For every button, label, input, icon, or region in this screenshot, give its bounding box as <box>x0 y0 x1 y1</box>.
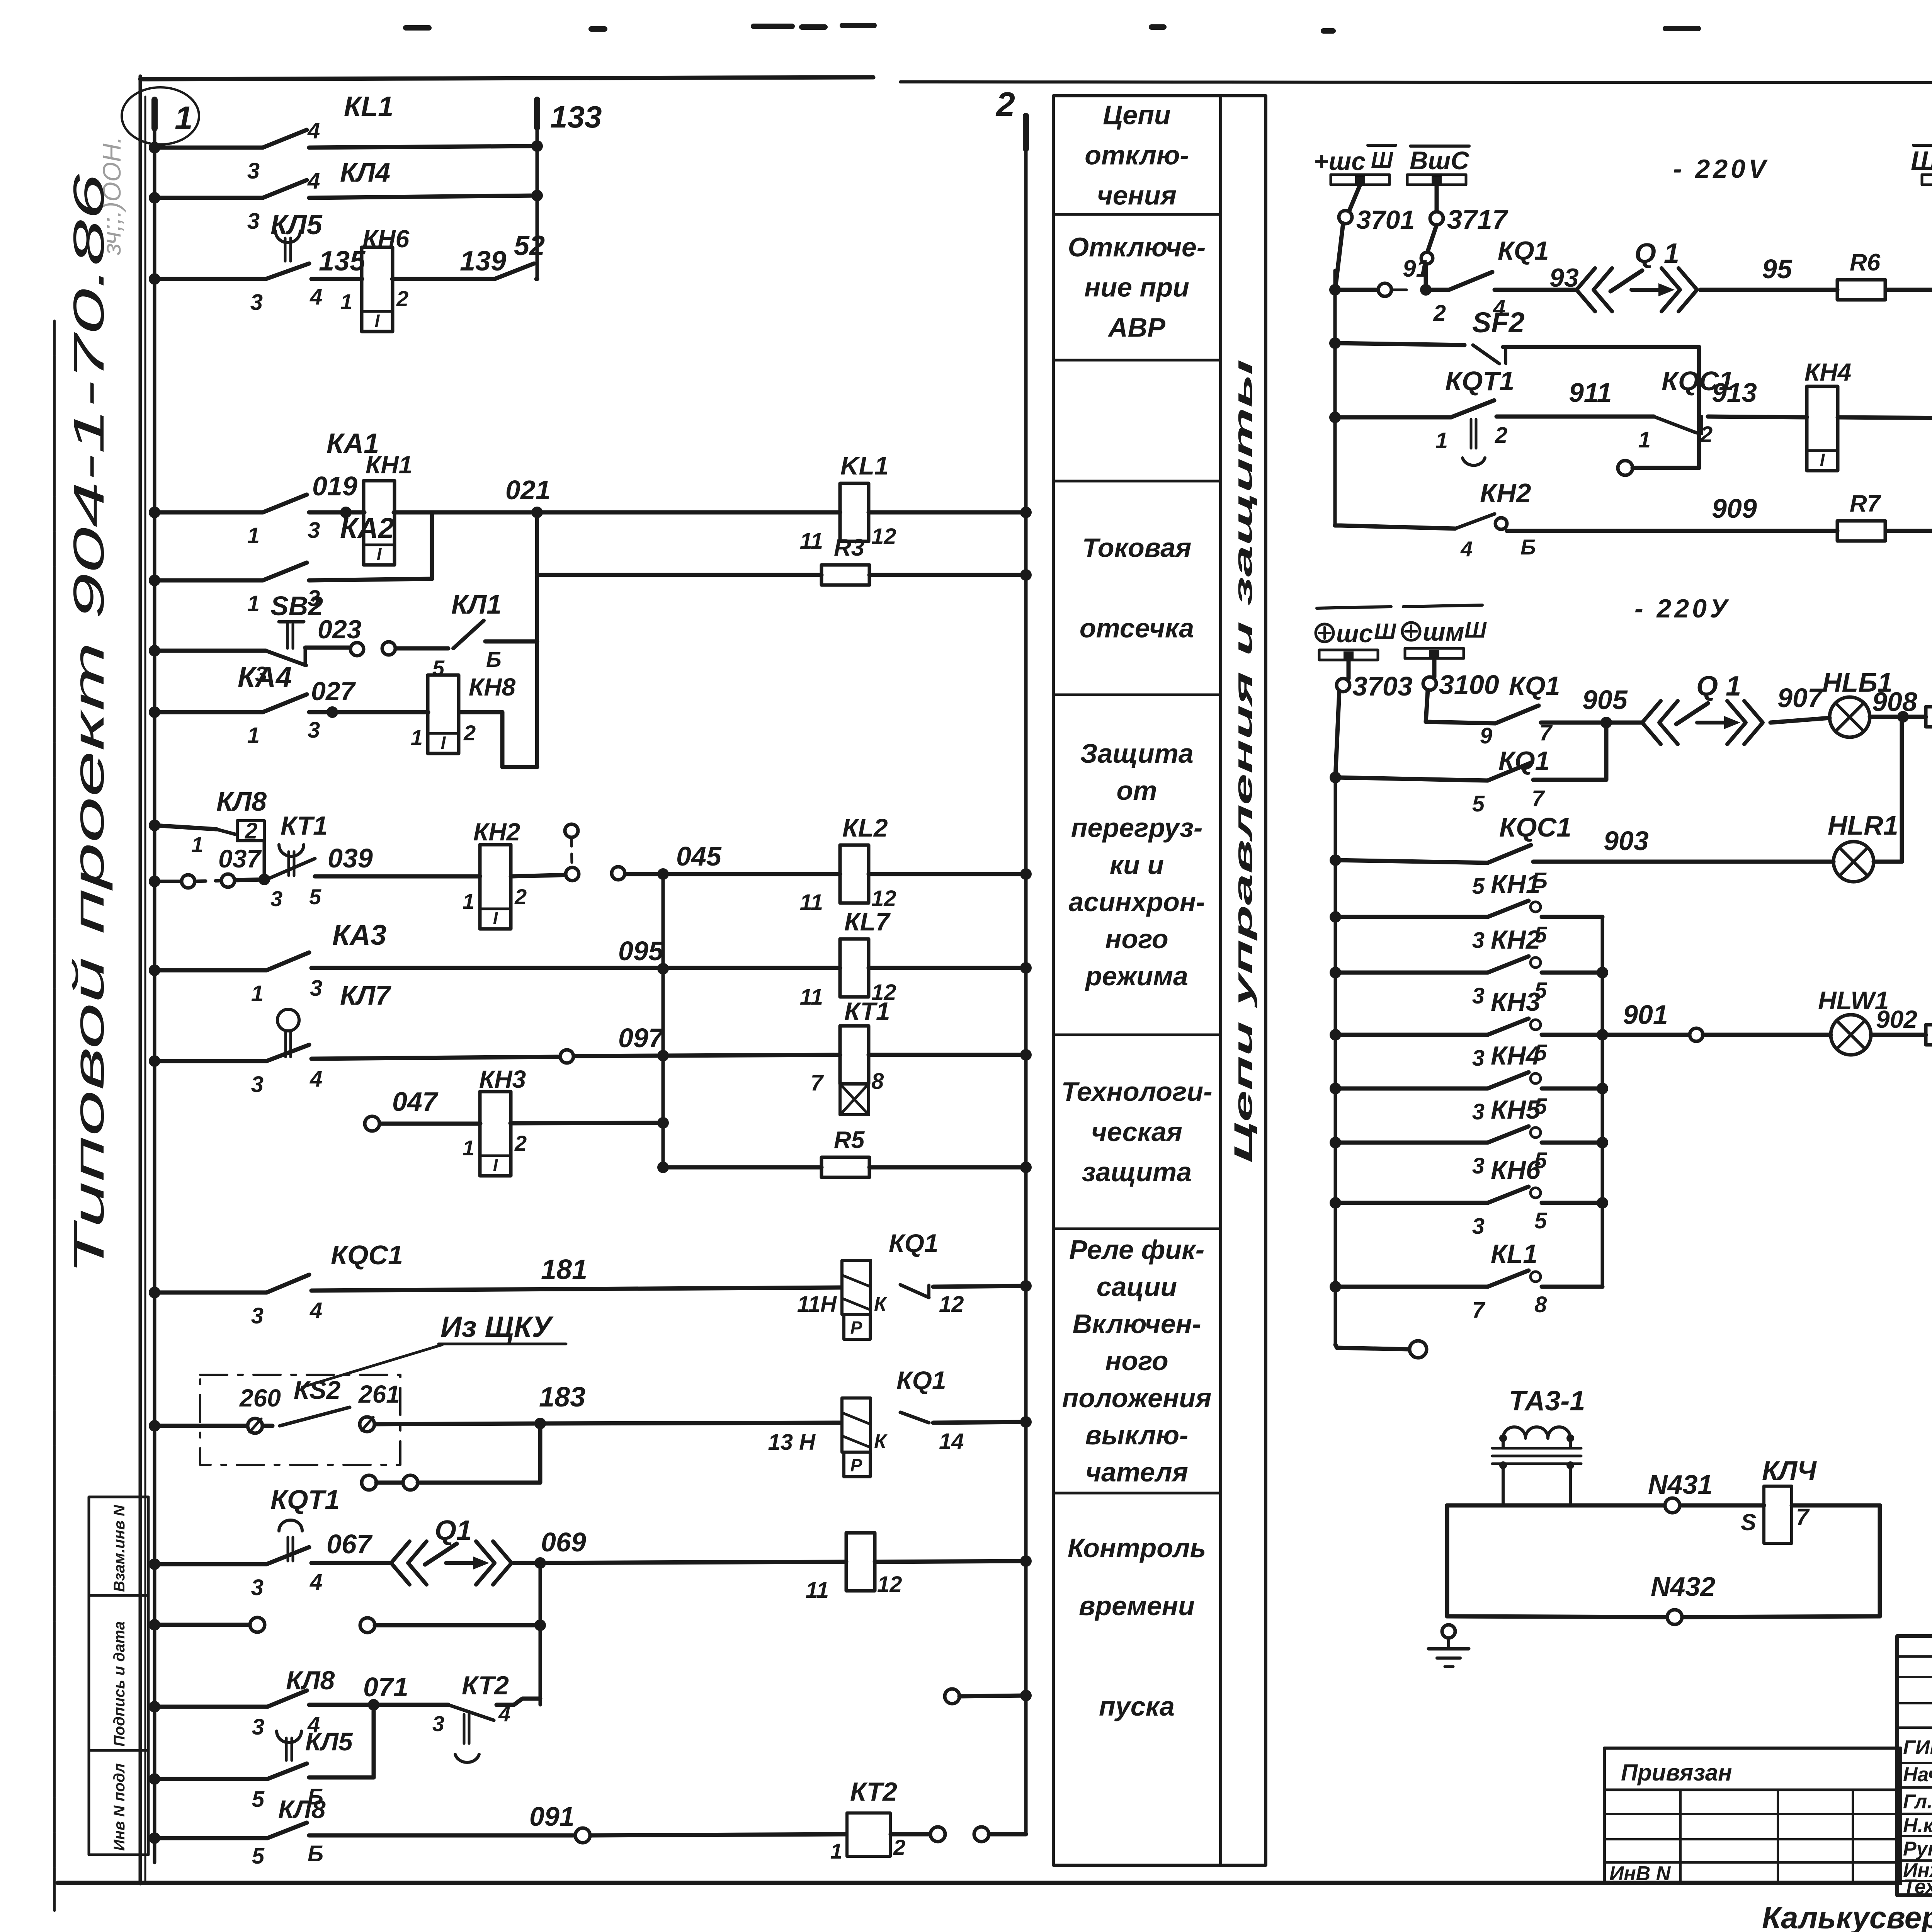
drop contact above 045 <box>565 824 625 881</box>
svg-text:зч;;.)ООН.: зч;;.)ООН. <box>97 136 126 255</box>
svg-text:2: 2 <box>995 85 1015 123</box>
svg-text:КL2: КL2 <box>842 813 888 842</box>
svg-text:3701: 3701 <box>1356 205 1415 235</box>
svg-text:КТ1: КТ1 <box>281 811 328 840</box>
svg-text:1: 1 <box>1435 428 1448 453</box>
wire rung 091-KT2 <box>149 1832 930 1844</box>
node 021 <box>505 475 551 518</box>
svg-text:3: 3 <box>250 290 263 315</box>
svg-text:5: 5 <box>252 1787 265 1812</box>
svg-text:асинхрон-: асинхрон- <box>1069 887 1205 917</box>
node 045 <box>657 841 722 880</box>
svg-text:095: 095 <box>618 936 664 966</box>
node 091 <box>529 1801 590 1843</box>
svg-text:ТА3-1: ТА3-1 <box>1509 1386 1585 1417</box>
wire rung KL1 <box>149 140 543 153</box>
svg-text:ШЗА: ШЗА <box>1911 146 1932 176</box>
relay KT2 coil <box>830 1777 905 1863</box>
bus +шсШ <box>1314 145 1396 185</box>
contact KL5 (5-6) with actuator <box>252 1727 353 1812</box>
relay KQ1 (11H-K-12) <box>797 1229 964 1339</box>
wire riser 069 down <box>539 1563 542 1705</box>
svg-text:Включен-: Включен- <box>1073 1309 1201 1339</box>
svg-text:Рук.гр: Рук.гр <box>1903 1838 1932 1860</box>
svg-text:091: 091 <box>529 1801 575 1832</box>
svg-text:КL1: КL1 <box>344 91 393 122</box>
wire rung 071 <box>149 1699 540 1713</box>
svg-text:52: 52 <box>514 230 545 261</box>
contact KL7 (3-4) with actuator <box>251 980 391 1097</box>
wire rung 067-Q1-069 <box>149 1555 1032 1570</box>
wire rung KA1-KH1-KL1 <box>149 507 1032 518</box>
svg-text:КL7: КL7 <box>844 907 891 936</box>
svg-text:069: 069 <box>541 1527 586 1557</box>
connector circles to bus2 <box>930 1827 1026 1842</box>
svg-text:1: 1 <box>247 523 260 548</box>
svg-text:Реле фик-: Реле фик- <box>1069 1235 1204 1265</box>
svg-text:шм: шм <box>1423 617 1464 646</box>
svg-text:КQС1: КQС1 <box>1499 812 1571 842</box>
middle table row texts <box>1061 100 1213 1722</box>
svg-text:4: 4 <box>310 1298 322 1323</box>
svg-text:8: 8 <box>1534 1292 1547 1317</box>
contact KA1 (1-3) <box>247 428 379 548</box>
contact KH2 (4-6) <box>1455 478 1536 561</box>
wire rung KQ1(5-7) <box>1330 723 1606 783</box>
svg-text:КН6: КН6 <box>362 225 410 253</box>
resistor R5 <box>821 1157 869 1177</box>
svg-text:от: от <box>1117 776 1157 806</box>
svg-text:КЛ8: КЛ8 <box>216 786 267 816</box>
svg-text:905: 905 <box>1582 685 1628 715</box>
terminal circle branch <box>1618 461 1699 475</box>
contact KL4 (3-4) <box>247 157 390 234</box>
contact KQC1 (1-2) <box>1638 366 1734 452</box>
svg-text:7: 7 <box>811 1070 824 1095</box>
svg-text:Технологи-: Технологи- <box>1061 1077 1213 1107</box>
svg-text:045: 045 <box>676 841 722 871</box>
svg-text:902: 902 <box>1876 1005 1917 1033</box>
svg-text:2: 2 <box>893 1835 905 1859</box>
wire rung KH6 <box>149 273 537 285</box>
contact KQC1 (3-4) <box>251 1240 403 1328</box>
contact КL1 row <box>1330 1239 1602 1323</box>
svg-text:Отключе-: Отключе- <box>1068 232 1206 262</box>
svg-text:КL1: КL1 <box>1491 1239 1537 1269</box>
svg-text:913: 913 <box>1712 378 1757 408</box>
svg-text:Б: Б <box>1520 535 1536 559</box>
svg-text:4: 4 <box>310 1570 322 1595</box>
svg-text:1: 1 <box>463 889 474 913</box>
contact KL8 (1-2) to box 2 <box>149 786 270 885</box>
svg-text:3: 3 <box>1472 983 1485 1009</box>
svg-text:Р: Р <box>850 1318 862 1338</box>
wire rung SB2 <box>149 641 537 656</box>
svg-text:К: К <box>874 1293 888 1315</box>
svg-text:2: 2 <box>1700 422 1713 447</box>
breaker contact Q1 <box>1577 238 1697 311</box>
svg-text:2: 2 <box>514 884 527 909</box>
svg-text:911: 911 <box>1569 378 1612 408</box>
svg-text:КН4: КН4 <box>1491 1041 1541 1070</box>
connector circle 097 <box>560 1023 665 1063</box>
wire rung KL5 5-6 <box>149 1705 374 1785</box>
transformer TA3-1 <box>1492 1386 1585 1505</box>
svg-text:КQ1: КQ1 <box>1509 671 1560 701</box>
bus ⊕шсШ <box>1316 607 1396 660</box>
svg-text:5: 5 <box>1534 1208 1547 1233</box>
svg-text:3: 3 <box>432 1711 444 1736</box>
contact KT1 (3-5) with actuator <box>267 811 328 911</box>
bus ВшС <box>1407 146 1469 185</box>
svg-text:7: 7 <box>1532 786 1545 811</box>
svg-text:КЛ8: КЛ8 <box>286 1666 335 1695</box>
bus ⊕шмШ <box>1402 605 1487 658</box>
svg-text:3: 3 <box>308 718 320 743</box>
contact KQC1 (5-6) <box>1472 812 1571 899</box>
contact KA3 (1-3) <box>251 919 386 1006</box>
contact 52 <box>495 230 545 279</box>
svg-text:Q 1: Q 1 <box>1696 671 1741 702</box>
svg-text:SB2: SB2 <box>270 591 323 621</box>
lamp HLW1 <box>1818 986 1917 1055</box>
svg-text:КТ1: КТ1 <box>844 997 890 1026</box>
svg-text:I: I <box>377 544 382 564</box>
svg-text:КQ1: КQ1 <box>889 1229 939 1257</box>
svg-text:4: 4 <box>310 284 322 310</box>
svg-text:КЛ7: КЛ7 <box>340 980 391 1010</box>
svg-text:режима: режима <box>1085 961 1188 991</box>
svg-text:019: 019 <box>312 471 357 501</box>
svg-text:12: 12 <box>939 1292 964 1317</box>
svg-text:047: 047 <box>392 1087 439 1117</box>
svg-text:908: 908 <box>1872 687 1917 717</box>
svg-text:Типовой проект 904-1-70.8: Типовой проект 904-1-70.86 <box>65 173 113 1275</box>
svg-text:907: 907 <box>1777 683 1824 713</box>
svg-text:защита: защита <box>1082 1157 1192 1187</box>
svg-text:1: 1 <box>1638 427 1651 452</box>
contact KL7 (11-12) <box>800 907 896 1010</box>
svg-text:S: S <box>1741 1509 1756 1535</box>
svg-text:Калькусверил Горстка: Калькусверил Горстка <box>1762 1900 1932 1932</box>
svg-text:R6: R6 <box>1850 249 1881 276</box>
svg-text:5: 5 <box>1472 791 1485 816</box>
wire rung KS2-183 <box>149 1416 1032 1432</box>
wire: 133 bus vertical <box>536 128 539 279</box>
svg-text:901: 901 <box>1623 1000 1668 1030</box>
svg-text:2: 2 <box>1495 423 1507 448</box>
contact KL8 (3-4) <box>252 1666 335 1740</box>
contact KT2 (3-4) with actuator <box>432 1671 510 1762</box>
svg-text:5: 5 <box>309 884 321 909</box>
svg-text:071: 071 <box>363 1672 408 1702</box>
lamp HLG1 <box>1822 667 1893 737</box>
node 3701 <box>1335 185 1415 526</box>
wire rung KA4-KH8 <box>149 706 537 767</box>
wire rung KQC1-181 <box>149 1280 1032 1298</box>
svg-text:КН1: КН1 <box>1491 869 1541 899</box>
node 027 <box>311 677 356 718</box>
svg-text:3100: 3100 <box>1439 670 1499 700</box>
svg-text:КН8: КН8 <box>469 673 516 701</box>
svg-text:Взам.инв N: Взам.инв N <box>111 1505 128 1592</box>
svg-text:11: 11 <box>806 1578 829 1603</box>
svg-text:5: 5 <box>252 1844 265 1869</box>
wire riser 021 down <box>535 512 539 767</box>
svg-text:КQ1: КQ1 <box>1498 236 1549 265</box>
dash-dot box KS2 <box>200 1375 400 1465</box>
svg-text:11: 11 <box>800 529 823 554</box>
signature table texts <box>1903 1736 1932 1898</box>
wire TA3-1 loop <box>1447 1505 1880 1617</box>
wire rung 901-HLW1-902-R9 <box>1602 1028 1932 1041</box>
svg-text:3: 3 <box>1472 1214 1485 1239</box>
svg-text:положения: положения <box>1062 1383 1212 1413</box>
svg-text:I: I <box>493 908 498 928</box>
contact KL8 (11-12) <box>806 1533 902 1603</box>
svg-text:Цепи: Цепи <box>1103 100 1170 130</box>
svg-text:95: 95 <box>1762 254 1793 284</box>
svg-text:7: 7 <box>1472 1298 1486 1323</box>
svg-text:КЛ5: КЛ5 <box>270 209 323 240</box>
svg-text:11Н: 11Н <box>797 1292 837 1317</box>
svg-text:91: 91 <box>1403 255 1429 282</box>
svg-text:ние при: ние при <box>1084 272 1189 303</box>
svg-text:отсечка: отсечка <box>1080 613 1194 643</box>
svg-text:183: 183 <box>539 1382 585 1413</box>
contact KL8 (5-6) <box>252 1795 326 1869</box>
node 019 <box>312 471 357 518</box>
contact KS2 with terminals 260/261 <box>239 1376 400 1433</box>
svg-text:909: 909 <box>1712 493 1757 524</box>
svg-text:11: 11 <box>800 890 823 915</box>
svg-text:КQТ1: КQТ1 <box>1445 366 1514 396</box>
svg-text:ного: ного <box>1105 1346 1168 1376</box>
contact КН3 row <box>1330 987 1602 1071</box>
svg-text:Подпись и дата: Подпись и дата <box>111 1621 128 1747</box>
svg-text:КН5: КН5 <box>1491 1095 1541 1124</box>
terminal stub on bus2 <box>945 1689 1032 1704</box>
svg-text:КН3: КН3 <box>1491 987 1541 1017</box>
wire lamp collector vertical <box>1597 917 1608 1287</box>
svg-text:Гл.спец: Гл.спец <box>1903 1791 1932 1813</box>
relay KH2 <box>480 845 511 929</box>
contact KQ1 (5-7) <box>1472 746 1550 816</box>
svg-text:Привязан: Привязан <box>1621 1760 1732 1786</box>
svg-text:1: 1 <box>340 289 352 314</box>
svg-text:14: 14 <box>939 1429 964 1454</box>
svg-text:Цепи управления и: Цепи управления и защиты <box>1229 359 1257 1163</box>
svg-text:2: 2 <box>514 1131 527 1155</box>
svg-text:N431: N431 <box>1648 1469 1713 1500</box>
resistor R8 <box>1926 707 1932 727</box>
svg-text:КЛ4: КЛ4 <box>340 157 390 187</box>
svg-text:3: 3 <box>247 158 260 184</box>
wire rung KH2-909-R7 <box>1335 526 1932 531</box>
bus ШЗАШ <box>1911 145 1932 185</box>
svg-text:Ш: Ш <box>1464 617 1487 643</box>
relay KQ1 (13H-K-14) <box>768 1366 964 1477</box>
contact KT1 (7-8) <box>811 997 890 1115</box>
relay KH3 <box>480 1092 511 1176</box>
contact KA4 (1-3) <box>238 661 320 748</box>
contact KL5 (3-4) with actuator <box>250 209 323 315</box>
middle table frame <box>1053 96 1266 1865</box>
svg-text:времени: времени <box>1079 1591 1195 1621</box>
svg-text:Контроль: Контроль <box>1068 1533 1206 1563</box>
svg-text:R7: R7 <box>1850 490 1881 517</box>
contact KQT1 (1-2) with actuator <box>1435 366 1514 465</box>
svg-text:ческая: ческая <box>1091 1117 1182 1147</box>
wire rung KQC1(5-6)-903-HLR1 <box>1330 717 1902 866</box>
svg-text:4: 4 <box>310 1066 322 1092</box>
wire rung KQT1-911-KQC1-913-KH4 <box>1329 412 1932 423</box>
svg-text:1: 1 <box>247 591 260 616</box>
svg-text:КА4: КА4 <box>238 661 292 693</box>
svg-text:Нач сек: Нач сек <box>1903 1764 1932 1786</box>
contact KL1 (11-12) <box>800 451 896 554</box>
connector circles 037 <box>182 844 262 888</box>
svg-text:R5: R5 <box>834 1127 865 1153</box>
svg-text:КТ2: КТ2 <box>850 1777 897 1806</box>
svg-text:I: I <box>441 733 446 753</box>
svg-text:+шс: +шс <box>1314 147 1366 175</box>
svg-text:133: 133 <box>550 100 602 134</box>
wire rung 037-039-KH2-045 <box>149 868 1032 887</box>
svg-text:- 220V: - 220V <box>1673 154 1769 184</box>
contact КН4 row <box>1330 1041 1602 1124</box>
svg-text:097: 097 <box>618 1023 665 1053</box>
button SB2 <box>255 591 323 686</box>
relay KL4 coil <box>1741 1456 1817 1543</box>
svg-text:903: 903 <box>1604 826 1649 856</box>
svg-text:ВшС: ВшС <box>1410 146 1469 175</box>
svg-text:выклю-: выклю- <box>1085 1420 1189 1450</box>
wire R3 branch <box>537 569 1032 581</box>
svg-text:2: 2 <box>396 286 408 311</box>
svg-text:ки и: ки и <box>1110 850 1164 880</box>
wire rung 047-KH3 <box>379 1117 669 1129</box>
node N432 <box>1651 1571 1715 1624</box>
contact SF2 and wire <box>1329 306 1699 468</box>
svg-text:КН2: КН2 <box>1491 925 1541 954</box>
svg-text:11: 11 <box>800 985 823 1010</box>
svg-text:КН2: КН2 <box>473 818 520 846</box>
svg-text:КТ2: КТ2 <box>462 1671 509 1700</box>
resistor R3 <box>821 565 869 585</box>
svg-text:Б: Б <box>308 1841 323 1866</box>
svg-text:9: 9 <box>1480 723 1492 748</box>
svg-text:3703: 3703 <box>1352 671 1413 701</box>
node 071 <box>363 1672 408 1711</box>
svg-text:181: 181 <box>541 1254 587 1285</box>
svg-text:12: 12 <box>877 1572 902 1597</box>
wire rung KA2 <box>149 512 432 586</box>
breaker contact Q1 <box>1642 671 1763 744</box>
svg-text:037: 037 <box>218 844 262 873</box>
svg-text:2: 2 <box>1433 301 1446 326</box>
lamp HLR1 <box>1828 810 1898 882</box>
svg-text:КН6: КН6 <box>1491 1155 1541 1185</box>
contact KA2 (1-3) <box>247 512 394 616</box>
svg-text:КQС1: КQС1 <box>331 1240 403 1270</box>
contact KQ1 (9-7) <box>1480 671 1560 748</box>
svg-text:4: 4 <box>307 118 320 143</box>
svg-text:023: 023 <box>318 615 362 644</box>
connector circles 023 <box>350 642 395 656</box>
svg-text:8: 8 <box>871 1069 884 1094</box>
wire: bus 2 vertical <box>1024 149 1028 1834</box>
contact KL1 (5-6) <box>432 589 502 680</box>
svg-text:КН4: КН4 <box>1804 358 1851 386</box>
svg-text:КН1: КН1 <box>366 451 412 479</box>
svg-text:Из ЩКУ: Из ЩКУ <box>440 1311 554 1344</box>
svg-text:5: 5 <box>1472 874 1485 899</box>
contact KQ1 (2-4) <box>1433 236 1549 326</box>
svg-text:1: 1 <box>251 981 264 1006</box>
svg-text:4: 4 <box>1460 537 1473 561</box>
svg-text:КQ1: КQ1 <box>1498 746 1550 776</box>
relay KH6 <box>362 247 393 332</box>
svg-text:КЛ1: КЛ1 <box>451 589 502 619</box>
contact KL2 (11-12) <box>800 813 896 915</box>
svg-text:3: 3 <box>270 886 282 911</box>
svg-text:3: 3 <box>310 976 322 1001</box>
resistor R7 <box>1837 521 1885 541</box>
breaker contact Q1 <box>391 1515 512 1585</box>
svg-text:027: 027 <box>311 677 356 706</box>
svg-text:KL1: KL1 <box>840 451 889 480</box>
node 1 (left supply bus) <box>122 87 199 145</box>
svg-text:261: 261 <box>358 1380 400 1408</box>
svg-text:ИнВ N: ИнВ N <box>1609 1862 1671 1885</box>
svg-text:перегруз-: перегруз- <box>1071 813 1203 843</box>
svg-text:К: К <box>874 1430 888 1453</box>
svg-text:Р: Р <box>850 1455 862 1475</box>
left margin faint stamp text <box>97 136 126 255</box>
svg-text:SF2: SF2 <box>1472 306 1525 338</box>
relay KH8 <box>428 675 459 753</box>
resistor R9 <box>1926 1025 1932 1045</box>
svg-text:чения: чения <box>1097 180 1177 211</box>
wire riser 045-R5 <box>662 874 665 1167</box>
svg-text:3: 3 <box>1472 1153 1485 1179</box>
contact КН2 row <box>1330 925 1602 1009</box>
svg-text:Н.контр: Н.контр <box>1903 1815 1932 1837</box>
contact КН6 row <box>1330 1155 1602 1239</box>
svg-text:1: 1 <box>463 1136 474 1160</box>
svg-text:139: 139 <box>460 246 506 277</box>
svg-text:135: 135 <box>319 246 366 277</box>
svg-text:3: 3 <box>1472 1099 1485 1124</box>
svg-text:Ш: Ш <box>1374 619 1396 644</box>
svg-text:3: 3 <box>251 1575 264 1600</box>
contact КН5 row <box>1330 1095 1602 1179</box>
svg-text:3: 3 <box>251 1303 264 1328</box>
svg-text:3: 3 <box>1472 928 1485 953</box>
svg-text:КН3: КН3 <box>479 1065 526 1093</box>
svg-text:4: 4 <box>498 1702 510 1726</box>
svg-text:1: 1 <box>247 723 260 748</box>
svg-text:1: 1 <box>411 725 423 750</box>
svg-text:КQТ1: КQТ1 <box>270 1485 340 1515</box>
svg-text:I: I <box>1820 450 1825 470</box>
wire rung KA3-095 <box>149 962 1032 976</box>
svg-text:КА3: КА3 <box>332 919 386 951</box>
svg-text:7: 7 <box>1796 1504 1810 1530</box>
svg-text:Техник: Техник <box>1903 1876 1932 1898</box>
svg-text:Токовая: Токовая <box>1082 533 1192 563</box>
